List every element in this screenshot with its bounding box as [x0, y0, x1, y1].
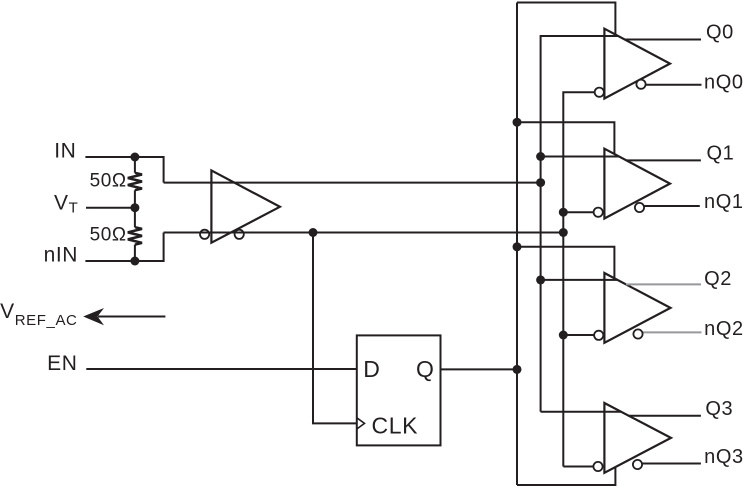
clock wedge on flip-flop — [357, 418, 365, 429]
svg-text:nIN: nIN — [44, 244, 78, 267]
svg-text:Q3: Q3 — [705, 398, 733, 420]
wire Q1 output — [626, 159, 701, 161]
wire V1 bottom rail and Q3 enable rise — [517, 467, 615, 485]
wire true output line (input buffer to V2) — [164, 182, 541, 184]
wire nQ0 output — [646, 84, 702, 86]
node junction VT — [130, 203, 139, 212]
node junction V3 Q1 tap — [559, 208, 568, 217]
wire nQ1 output — [644, 205, 700, 207]
wire V3 tap to Q1 bottom input — [563, 211, 593, 213]
svg-text:nQ0: nQ0 — [704, 72, 744, 94]
D flip-flop U2 box — [357, 335, 441, 445]
node junction V1 flip-flop Q — [513, 365, 522, 374]
node junction nIN — [130, 257, 139, 266]
wire V2 tap to Q1 top input — [541, 156, 605, 158]
wire complement output line (input buffer to V3) — [164, 232, 564, 234]
op-amp output buffer Q3 — [604, 403, 671, 473]
op-amp output buffer Q1 — [604, 149, 670, 219]
wire V1 tap to Q2 enable — [517, 247, 614, 278]
wire Q0 output — [625, 39, 701, 41]
node junction CLK tap — [309, 228, 318, 237]
inverted output bubble nQ3 — [633, 460, 642, 469]
svg-text:IN: IN — [54, 139, 76, 162]
wire V2 to Q3 top input — [541, 411, 605, 413]
inverted output bubble nQ2 — [633, 329, 642, 338]
wire Q2 input stub inside buffer — [604, 279, 617, 281]
wire Q0 top input and bus V2 vertical — [541, 36, 605, 412]
inverted output bubble of input buffer — [235, 230, 244, 239]
inverting input bubble Q3 — [593, 462, 602, 471]
wire nIN lead — [85, 260, 134, 262]
node junction V2 Q2 tap — [536, 275, 545, 284]
svg-text:Q1: Q1 — [707, 142, 735, 164]
wire nQ2 output (gray) — [643, 331, 702, 333]
wire VT lead — [86, 207, 135, 209]
wire V1 tap to Q1 enable — [517, 122, 614, 154]
op-amp input buffer U1 — [211, 170, 280, 242]
op-amp output buffer Q2 — [604, 273, 670, 343]
svg-text:CLK: CLK — [372, 413, 419, 439]
inverted output bubble nQ0 — [636, 80, 645, 89]
wire nIN to buffer corner — [135, 233, 164, 262]
inverted output bubble nQ1 — [635, 203, 644, 212]
wire flip-flop Q output to V1 — [441, 368, 518, 370]
svg-text:Q: Q — [416, 356, 435, 382]
node junction IN — [130, 153, 139, 162]
svg-text:Q0: Q0 — [706, 22, 734, 44]
svg-text:Q2: Q2 — [704, 268, 732, 290]
wire bus V1 vertical — [516, 3, 518, 486]
inverting input bubble Q2 — [594, 331, 603, 340]
wire Q2 output (gray) — [626, 283, 701, 285]
wire IN lead — [85, 156, 134, 158]
svg-text:nQ1: nQ1 — [704, 191, 744, 213]
inverting input bubble Q0 — [595, 88, 604, 97]
wire termination chain vertical segments — [134, 157, 136, 261]
inverting input bubble of input buffer — [200, 230, 209, 239]
svg-text:nQ3: nQ3 — [704, 446, 744, 468]
node junction V3 source — [559, 228, 568, 237]
node junction V1 Q2 tap — [513, 242, 522, 251]
wire CLK tap down to flip-flop — [313, 233, 357, 424]
node junction V2 Q1 tap — [536, 152, 545, 161]
arrowhead VREF_AC — [83, 308, 104, 325]
svg-text:nQ2: nQ2 — [704, 318, 744, 340]
wire Q1 input stub inside buffer — [604, 156, 618, 158]
svg-text:EN: EN — [47, 352, 77, 375]
wire V3 to Q3 bottom input — [563, 466, 593, 468]
wire Q0 input stub inside buffer — [604, 35, 618, 37]
wire V3 tap to Q2 bottom input — [563, 334, 594, 336]
resistor 50ohm R2 — [128, 227, 142, 244]
wire V1 top rail and Q0 enable drop — [517, 3, 615, 35]
node junction V3 Q2 tap — [559, 331, 568, 340]
arrow VREF_AC — [98, 316, 165, 318]
resistor 50ohm R1 — [128, 173, 142, 190]
wire Q3 output — [628, 415, 701, 417]
wire nQ3 output — [642, 463, 701, 465]
wire Q0 bottom input and bus V3 vertical — [563, 92, 595, 466]
op-amp output buffer Q0 — [604, 29, 670, 99]
svg-text:D: D — [363, 356, 380, 382]
wire Q3 input stub inside buffer — [604, 411, 621, 413]
node junction V2 source — [536, 178, 545, 187]
inverting input bubble Q1 — [594, 208, 603, 217]
wire EN to flip-flop D — [86, 368, 357, 370]
wire IN to buffer corner — [135, 157, 164, 183]
node junction V1 Q1 tap — [513, 118, 522, 127]
svg-text:50Ω: 50Ω — [90, 171, 127, 192]
wire V2 tap to Q2 top input — [541, 279, 605, 281]
svg-text:50Ω: 50Ω — [90, 224, 127, 245]
